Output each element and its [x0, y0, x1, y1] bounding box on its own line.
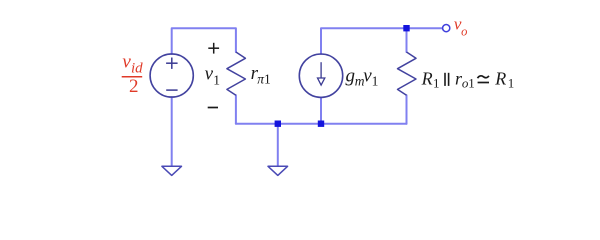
svg-text:1: 1 [433, 75, 440, 90]
svg-text:1: 1 [508, 75, 515, 90]
resistor r_pi1 [227, 52, 246, 95]
svg-text:1: 1 [213, 72, 220, 87]
junction node top of R1 [403, 25, 409, 31]
svg-text:1: 1 [264, 72, 271, 87]
ground left [162, 166, 182, 175]
junction node bottom of current source [318, 121, 324, 127]
svg-text:R: R [494, 69, 506, 89]
wire above resistor R1 [406, 28, 408, 52]
voltage source vid/2 [150, 54, 193, 97]
svg-text:o: o [461, 24, 467, 38]
minus sign inside source [166, 89, 177, 91]
junction node bottom ground tap [275, 121, 281, 127]
wire current source top [321, 28, 443, 54]
approx-equal symbol [478, 76, 490, 83]
wire below resistor R1 [406, 95, 408, 124]
wire current source bottom [320, 97, 322, 123]
svg-text:id: id [131, 60, 143, 76]
label - polarity of v1 [208, 107, 218, 109]
svg-text:g: g [346, 66, 356, 87]
output terminal circle [443, 25, 450, 32]
wire bottom rail [236, 123, 407, 125]
label vid/2 (red fraction) [122, 52, 143, 98]
wire middle ground drop [277, 124, 279, 166]
plus sign inside source [166, 62, 178, 64]
svg-text:1: 1 [372, 73, 379, 88]
svg-text:2: 2 [129, 76, 139, 97]
ground middle [268, 166, 288, 175]
current source gm*v1 [299, 54, 342, 97]
resistor R1 [398, 52, 417, 95]
arrow inside current source [318, 62, 325, 85]
svg-text:R: R [421, 69, 433, 89]
wire top-left rail [172, 28, 236, 54]
wire below resistor r_pi1 [235, 95, 237, 124]
svg-text:1: 1 [468, 75, 475, 90]
label + polarity of v1 [208, 43, 219, 54]
wire below voltage source [171, 97, 173, 166]
